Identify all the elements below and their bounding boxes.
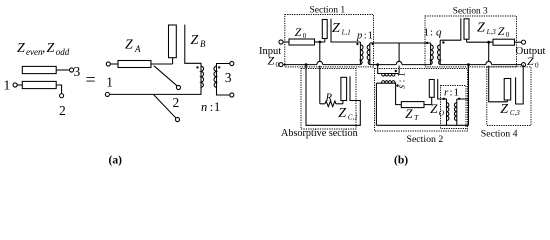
s:1 bottom coil: [376, 83, 401, 104]
svg-text:Section 4: Section 4: [481, 129, 518, 140]
bottom rail segment 3: [370, 64, 396, 66]
wire coil to port3 top: [217, 64, 230, 67]
Absorptive branch wire down: [319, 42, 321, 104]
label Z0 output line: [498, 24, 510, 39]
coupled line bottom bar: [22, 81, 56, 88]
resistor R zigzag: [325, 101, 336, 107]
label ZC1: [338, 106, 358, 122]
Section 1 dashed box: [285, 15, 374, 67]
junction dot section4: [487, 41, 490, 44]
svg-text:1: 1: [424, 27, 430, 39]
output bottom terminal: [521, 63, 525, 67]
bottom rail segment 5: [440, 64, 486, 66]
svg-text:Z: Z: [268, 53, 275, 67]
wire to port 3: [56, 69, 70, 71]
svg-text:q: q: [436, 27, 442, 39]
svg-text:2: 2: [59, 103, 66, 118]
svg-text:Section 3: Section 3: [453, 7, 488, 17]
svg-text:Z: Z: [500, 102, 508, 117]
svg-text:2: 2: [173, 95, 180, 110]
label Zeven,Zodd: [17, 40, 70, 57]
svg-text:1: 1: [214, 100, 220, 114]
label ZL3: [477, 21, 496, 36]
dot 1:q right: [442, 41, 444, 43]
right main wire: [467, 41, 493, 43]
transmission line ZA: [118, 61, 151, 68]
ZQ return wire: [438, 79, 447, 101]
svg-text:=: =: [86, 70, 96, 90]
bottom rail segment 4: [402, 64, 431, 66]
input bottom terminal: [279, 63, 283, 67]
stub ZQ: [429, 80, 434, 98]
label ZT: [405, 106, 419, 122]
port 1 terminal: [13, 83, 17, 87]
dot p:1 left: [356, 43, 358, 45]
Absorptive section dashed box: [301, 69, 356, 130]
transformer r:1 right coil: [456, 99, 458, 125]
svg-text::: :: [450, 87, 453, 99]
port 3 top terminal: [230, 61, 234, 65]
wire to resistor: [320, 103, 325, 105]
svg-text:Z: Z: [332, 21, 340, 36]
wire ZT to ZQ lead: [424, 104, 432, 106]
stub ZL3: [464, 19, 469, 39]
port 3 terminal: [70, 68, 74, 72]
dot r:1 right: [458, 98, 460, 100]
Section 4 dashed box: [487, 67, 531, 126]
svg-text:3: 3: [225, 70, 232, 85]
Input labels: [259, 46, 281, 69]
Section 3 dashed box: [425, 16, 517, 67]
r:1 right coil top lead: [457, 98, 469, 100]
bottom rail segment 6: [492, 64, 522, 66]
dot r:1 left: [443, 98, 445, 100]
svg-text:p: p: [356, 31, 362, 42]
line ZT: [401, 102, 424, 108]
line Z0 input: [289, 39, 315, 45]
svg-text:Z: Z: [498, 24, 505, 38]
ZC3 lead: [506, 100, 508, 102]
svg-text:n: n: [201, 100, 207, 114]
svg-text:even: even: [26, 47, 43, 57]
svg-text::: :: [210, 100, 213, 114]
wire Z0 to stub lead: [315, 41, 325, 43]
coupled line top bar: [22, 66, 56, 73]
svg-text:r: r: [444, 87, 449, 99]
svg-text:1: 1: [4, 78, 11, 93]
svg-text:0: 0: [535, 62, 539, 70]
diagonal to port2 lower: [154, 95, 177, 119]
port 3 bottom terminal: [230, 93, 234, 97]
hop over section4 branch: [486, 61, 492, 64]
svg-text:0: 0: [506, 31, 510, 39]
stub lead ZL1: [324, 39, 326, 43]
svg-text:T: T: [414, 113, 419, 122]
rail junction dot r:1 return: [467, 63, 470, 66]
s:1 bottom left lead down: [375, 83, 377, 125]
wire to port 1: [17, 84, 22, 86]
svg-text:Z: Z: [125, 38, 133, 53]
ZC3 return wire: [516, 65, 524, 104]
svg-text:1: 1: [454, 87, 460, 99]
svg-text:Absorptive section: Absorptive section: [281, 128, 358, 139]
svg-text:Z: Z: [477, 21, 485, 36]
ZC1 return wire: [306, 65, 360, 126]
stub ZC1: [341, 77, 347, 100]
node junction dot: [318, 41, 321, 44]
Section 2 dashed box: [375, 69, 468, 132]
svg-text:3: 3: [74, 64, 81, 79]
svg-text:O: O: [439, 109, 445, 118]
bottom rail segment 1: [283, 64, 317, 66]
stub ZB: [169, 25, 177, 58]
s:1 transformer top coil: [378, 65, 399, 74]
transformer r:1 left coil: [446, 101, 448, 125]
riser to rail: [468, 65, 470, 126]
dot s:1 bottom: [396, 84, 398, 86]
label r:1: [444, 87, 459, 99]
svg-text:Z: Z: [338, 106, 346, 121]
transformer right coil: [214, 66, 217, 88]
svg-text:Z: Z: [405, 106, 413, 121]
line Z0 output: [493, 39, 515, 45]
transformer p:1 left coil: [359, 42, 361, 65]
ZC1 lead: [342, 101, 344, 104]
svg-text:R: R: [325, 93, 333, 104]
svg-text:odd: odd: [56, 47, 70, 57]
dot right: [218, 66, 220, 68]
svg-text:s : 1: s : 1: [397, 72, 408, 89]
transformer 1:q right coil: [439, 40, 441, 64]
port 2 lower terminal: [175, 117, 179, 121]
label Z0 input line: [295, 25, 307, 40]
ZL1 return wire to p:1: [331, 19, 360, 42]
1:q to ZL3 return wire: [440, 18, 461, 40]
transformer link wire: [370, 42, 431, 44]
output top terminal: [521, 40, 525, 44]
bottom rail segment 2: [323, 64, 361, 66]
section2 bottom wire: [376, 124, 468, 126]
svg-text::: :: [430, 27, 433, 39]
transformer p:1 right coil: [369, 43, 371, 65]
label p:1: [356, 31, 373, 42]
dot s:1 top: [395, 70, 397, 72]
wire to output terminal: [515, 41, 522, 43]
label n:1: [201, 100, 220, 114]
inner dashed box around r:1 transformer: [441, 86, 467, 129]
svg-text:Z: Z: [47, 41, 55, 56]
stub ZC3: [504, 79, 511, 101]
Section 4 branch wire down: [489, 42, 508, 102]
stub lead ZB: [172, 58, 174, 64]
port 2 upper terminal: [176, 85, 180, 89]
transformer 1:q left coil: [430, 43, 432, 65]
svg-text:,: ,: [42, 40, 45, 55]
bottom rail: [109, 88, 201, 95]
hop over R branch: [317, 61, 323, 64]
svg-text:Z: Z: [430, 101, 438, 116]
rail junction dot absorptive return: [305, 63, 308, 66]
svg-text:Z: Z: [295, 25, 302, 39]
ZL3 lead: [466, 39, 468, 42]
svg-text:(b): (b): [394, 155, 408, 167]
wire input to Z0: [283, 41, 289, 43]
svg-text:Z: Z: [527, 54, 534, 68]
svg-text:Section 1: Section 1: [310, 5, 346, 15]
label ZB: [191, 33, 207, 49]
wire port1 to ZA: [110, 63, 118, 65]
svg-text:B: B: [200, 39, 206, 49]
port 1 bottom terminal: [105, 92, 109, 96]
dot left: [196, 66, 198, 68]
stub ZL1: [322, 20, 327, 39]
rail junction dot s:1 left: [376, 63, 379, 66]
port 1 terminal top: [106, 62, 110, 66]
svg-text:L,3: L,3: [486, 28, 497, 36]
port 2 terminal: [60, 94, 64, 98]
wire resistor to ZC1: [336, 103, 343, 105]
svg-text:C,3: C,3: [510, 109, 520, 117]
label ZL1: [332, 21, 351, 36]
svg-text:0: 0: [303, 32, 307, 40]
wire coil to port3 bottom: [217, 88, 230, 96]
wire ZA to stub: [151, 63, 173, 65]
hop over s:1 drop: [396, 61, 402, 64]
ZQ lead: [431, 97, 433, 104]
input top terminal: [279, 40, 283, 44]
svg-text:Z: Z: [191, 33, 199, 48]
label ZA: [125, 38, 141, 55]
svg-text:1: 1: [368, 31, 373, 42]
transformer left coil: [201, 66, 204, 88]
label 1:q: [424, 27, 443, 39]
svg-text:1: 1: [106, 75, 113, 90]
ZB return wire: [185, 25, 201, 66]
svg-text:A: A: [134, 44, 141, 54]
svg-text:L,1: L,1: [341, 28, 351, 36]
svg-text::: :: [364, 31, 367, 42]
svg-text:Section 2: Section 2: [407, 134, 444, 145]
label ZQ: [430, 101, 445, 118]
svg-text:(a): (a): [109, 155, 123, 167]
dot p:1 right: [372, 43, 374, 45]
label ZC3: [500, 102, 520, 117]
diagonal to port2 upper: [154, 66, 178, 87]
wire to port 2: [56, 85, 61, 94]
link drop to s:1: [398, 43, 400, 74]
dot 1:q left: [426, 42, 428, 44]
Output labels: [516, 45, 546, 70]
svg-text:Z: Z: [17, 41, 25, 56]
svg-text:C,1: C,1: [348, 114, 358, 122]
